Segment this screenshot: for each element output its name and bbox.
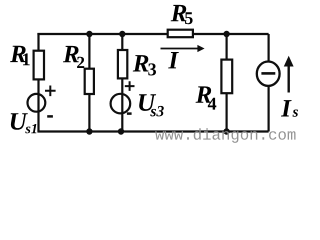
label I (current through R5)	[168, 52, 179, 68]
arrow I (right, under R5)	[161, 48, 199, 50]
label R5	[171, 5, 193, 24]
resistor R2	[85, 69, 94, 94]
plus sign Us1	[45, 86, 56, 97]
junction dot bottom R2	[86, 128, 92, 134]
arrow Is (up)	[288, 65, 290, 93]
label R4	[196, 86, 217, 109]
label Us1	[11, 113, 37, 133]
minus sign Us1	[47, 115, 53, 118]
junction dot bottom R3	[118, 128, 124, 134]
resistor R4	[221, 60, 232, 94]
voltage source Us1	[28, 94, 46, 112]
resistor R3	[118, 50, 127, 78]
label Us3	[139, 94, 164, 116]
label R3	[133, 55, 156, 75]
wire left branch Us1/R1	[37, 33, 39, 132]
resistor R5	[168, 30, 193, 38]
junction dot top R3	[119, 31, 125, 37]
wire R2 branch	[88, 34, 90, 132]
junction dot bottom R4	[223, 128, 229, 134]
label Is	[281, 100, 298, 117]
label R1	[10, 46, 30, 66]
label R2	[63, 46, 84, 68]
current source Is bar	[261, 72, 275, 75]
wire bottom	[37, 130, 268, 132]
wire R4 branch	[226, 34, 228, 132]
wire top	[37, 33, 268, 35]
wire right branch Is	[268, 34, 270, 132]
plus sign Us3	[125, 81, 135, 91]
wire R3 branch	[121, 34, 123, 132]
junction dot top R2	[86, 31, 92, 37]
junction dot top R4	[223, 31, 229, 37]
watermark www.diangon.com	[155, 128, 295, 143]
minus sign Us3	[127, 112, 132, 115]
resistor R1	[34, 51, 44, 80]
voltage source Us3	[111, 94, 131, 114]
current source Is	[257, 61, 280, 85]
